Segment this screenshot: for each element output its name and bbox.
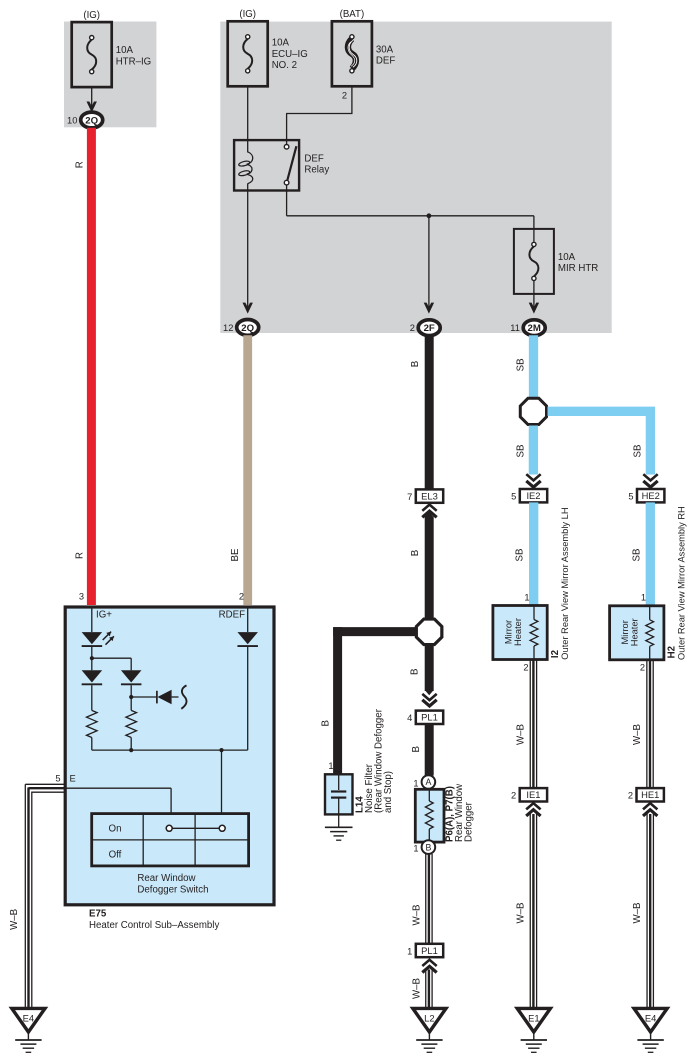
svg-text:1: 1: [641, 593, 646, 603]
svg-text:Heater: Heater: [513, 618, 523, 646]
svg-text:10: 10: [67, 115, 77, 125]
svg-text:R: R: [74, 552, 85, 559]
svg-text:E75: E75: [89, 909, 107, 920]
svg-text:HTR–IG: HTR–IG: [116, 56, 152, 67]
svg-text:(IG): (IG): [83, 10, 100, 21]
svg-text:10A: 10A: [558, 252, 576, 263]
svg-text:Mirror: Mirror: [620, 620, 630, 644]
svg-text:E1: E1: [528, 1013, 539, 1024]
svg-text:(IG): (IG): [239, 9, 256, 20]
svg-text:and Stop): and Stop): [383, 771, 394, 813]
svg-text:Rear Window: Rear Window: [137, 873, 196, 884]
svg-text:R: R: [74, 161, 85, 168]
svg-text:MIR HTR: MIR HTR: [558, 263, 598, 274]
svg-text:Mirror: Mirror: [503, 620, 513, 644]
svg-text:2: 2: [511, 791, 516, 801]
svg-text:SB: SB: [633, 445, 644, 458]
svg-text:BE: BE: [230, 548, 241, 561]
svg-text:ECU–IG: ECU–IG: [272, 49, 308, 60]
svg-text:12: 12: [223, 323, 233, 333]
svg-text:4: 4: [407, 713, 412, 723]
svg-text:1: 1: [524, 593, 529, 603]
svg-text:W–B: W–B: [9, 909, 20, 930]
svg-text:E4: E4: [23, 1013, 34, 1024]
svg-text:RDEF: RDEF: [219, 610, 245, 621]
svg-text:PL1: PL1: [421, 945, 438, 956]
svg-text:11: 11: [510, 323, 520, 333]
svg-text:2: 2: [628, 791, 633, 801]
svg-text:NO. 2: NO. 2: [272, 60, 297, 71]
svg-text:2M: 2M: [528, 323, 541, 334]
svg-text:DEF: DEF: [304, 153, 323, 164]
svg-text:2Q: 2Q: [85, 115, 98, 126]
svg-text:W–B: W–B: [411, 905, 422, 926]
svg-text:W–B: W–B: [632, 903, 643, 924]
svg-text:B: B: [425, 842, 431, 852]
svg-text:5: 5: [628, 492, 633, 502]
svg-text:On: On: [109, 824, 122, 835]
svg-text:2: 2: [640, 663, 645, 673]
svg-text:3: 3: [79, 592, 84, 602]
svg-text:EL3: EL3: [421, 491, 438, 502]
svg-text:(BAT): (BAT): [340, 9, 365, 20]
svg-text:5: 5: [55, 774, 60, 784]
svg-text:Defogger: Defogger: [464, 801, 475, 842]
svg-text:2: 2: [342, 91, 347, 101]
svg-text:2F: 2F: [424, 323, 435, 334]
svg-text:Outer Rear View Mirror Assembl: Outer Rear View Mirror Assembly RH: [677, 506, 687, 660]
svg-text:1: 1: [328, 761, 333, 771]
svg-text:1: 1: [407, 946, 412, 956]
svg-text:B: B: [410, 550, 421, 556]
svg-text:PL1: PL1: [421, 712, 438, 723]
svg-text:Defogger Switch: Defogger Switch: [137, 884, 208, 895]
svg-text:B: B: [411, 746, 422, 752]
svg-text:10A: 10A: [116, 45, 134, 56]
svg-text:E4: E4: [645, 1013, 656, 1024]
svg-text:W–B: W–B: [516, 903, 527, 924]
svg-text:Relay: Relay: [304, 165, 329, 176]
svg-text:HE2: HE2: [642, 490, 660, 501]
svg-text:A: A: [425, 777, 431, 787]
svg-text:L2: L2: [424, 1013, 434, 1024]
svg-text:IE1: IE1: [526, 789, 540, 800]
svg-text:W–B: W–B: [632, 724, 643, 745]
svg-text:HE1: HE1: [641, 789, 659, 800]
svg-text:SB: SB: [632, 549, 643, 562]
svg-text:SB: SB: [516, 445, 527, 458]
svg-text:10A: 10A: [272, 38, 290, 49]
svg-text:7: 7: [407, 492, 412, 502]
svg-text:2: 2: [523, 663, 528, 673]
svg-text:SB: SB: [516, 358, 527, 371]
svg-text:DEF: DEF: [376, 56, 395, 67]
svg-text:Heater: Heater: [630, 618, 640, 646]
svg-text:IG+: IG+: [96, 610, 112, 621]
svg-text:2Q: 2Q: [241, 323, 254, 334]
svg-text:30A: 30A: [376, 44, 394, 55]
svg-text:W–B: W–B: [516, 724, 527, 745]
svg-text:1: 1: [413, 779, 418, 789]
svg-text:B: B: [410, 669, 421, 675]
svg-text:B: B: [410, 361, 421, 367]
svg-text:SB: SB: [515, 549, 526, 562]
svg-text:5: 5: [511, 492, 516, 502]
svg-text:B: B: [320, 720, 331, 726]
svg-text:1: 1: [413, 844, 418, 854]
svg-text:Off: Off: [109, 850, 122, 861]
svg-text:2: 2: [239, 592, 244, 602]
svg-text:Heater Control Sub–Assembly: Heater Control Sub–Assembly: [89, 920, 219, 931]
svg-text:E: E: [70, 774, 76, 784]
svg-text:2: 2: [410, 323, 415, 333]
svg-text:IE2: IE2: [526, 490, 540, 501]
svg-text:W–B: W–B: [411, 978, 422, 999]
svg-text:Outer Rear View Mirror Assembl: Outer Rear View Mirror Assembly LH: [560, 507, 570, 659]
